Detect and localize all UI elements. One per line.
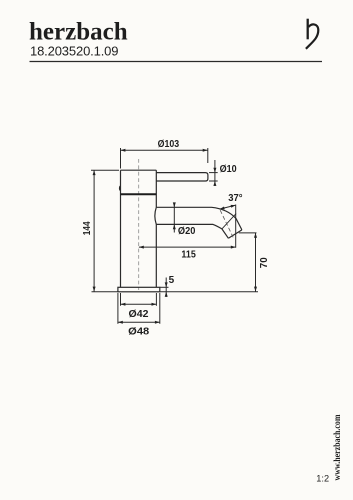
svg-text:Ø10: Ø10 — [220, 164, 237, 175]
body right side below spout — [155, 224, 157, 287]
dimension 48 — [118, 293, 160, 324]
svg-text:5: 5 — [169, 275, 175, 286]
head/body joint thick line — [121, 193, 157, 195]
head top — [121, 169, 157, 171]
head and body left side — [120, 170, 122, 287]
svg-text:115: 115 — [181, 250, 196, 261]
svg-text:1:2: 1:2 — [316, 474, 329, 484]
svg-text:144: 144 — [82, 221, 93, 235]
dimension 144 left — [91, 170, 119, 291]
outlet axis dashed line — [220, 210, 233, 237]
header rule — [30, 61, 323, 63]
countertop line right — [160, 291, 258, 293]
svg-text:70: 70 — [259, 257, 270, 268]
dimension 10 handle — [209, 160, 218, 186]
centerline of faucet body — [138, 159, 140, 290]
svg-text:www.herzbach.com: www.herzbach.com — [332, 414, 342, 480]
countertop line left — [92, 291, 118, 293]
herzbach logo mark — [306, 19, 318, 49]
svg-text:18.203520.1.09: 18.203520.1.09 — [30, 44, 119, 59]
svg-text:Ø48: Ø48 — [128, 327, 149, 338]
dimension 42 — [121, 293, 157, 306]
dimension 115 — [139, 246, 236, 248]
lever handle — [156, 173, 208, 181]
spout bottom edge and inner bend — [156, 224, 222, 229]
side knob on head — [119, 185, 121, 191]
svg-text:Ø20: Ø20 — [178, 226, 196, 237]
spout outlet mouth — [228, 230, 242, 238]
spout top edge and outer bend — [156, 207, 242, 230]
spout root intersection arc — [155, 207, 156, 224]
base plate — [118, 287, 160, 292]
svg-text:Ø42: Ø42 — [129, 309, 149, 320]
dimension 5 plate — [160, 278, 169, 298]
outlet cut cross line — [222, 214, 236, 229]
svg-text:herzbach: herzbach — [29, 19, 128, 46]
spout — [155, 207, 242, 238]
body right side above spout — [155, 170, 157, 207]
dimension 103 top — [121, 148, 208, 169]
svg-text:Ø103: Ø103 — [158, 139, 180, 150]
dimension 37 degrees — [220, 205, 236, 248]
svg-text:37°: 37° — [228, 193, 242, 204]
faucet body outline — [121, 170, 157, 287]
spout inner edge — [222, 229, 229, 238]
dimension 20 spout — [173, 203, 175, 233]
dimension 70 — [239, 233, 257, 292]
